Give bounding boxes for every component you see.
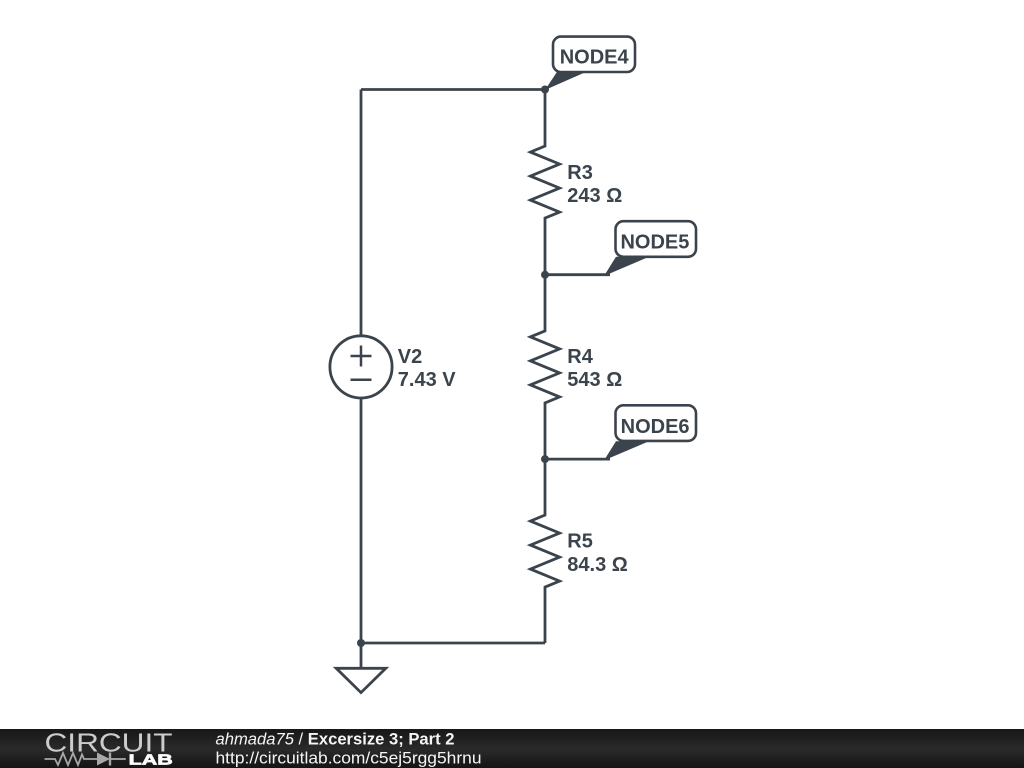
svg-text:http://circuitlab.com/c5ej5rgg: http://circuitlab.com/c5ej5rgg5hrnu (216, 750, 482, 768)
svg-text:R4: R4 (567, 346, 593, 368)
svg-text:V2: V2 (398, 346, 422, 368)
svg-text:NODE4: NODE4 (560, 47, 630, 69)
svg-text:543 Ω: 543 Ω (567, 369, 622, 391)
svg-text:ahmada75 / Excersize 3; Part 2: ahmada75 / Excersize 3; Part 2 (216, 731, 455, 749)
svg-text:R3: R3 (567, 162, 593, 184)
svg-text:LAB: LAB (129, 752, 173, 768)
svg-text:84.3 Ω: 84.3 Ω (567, 554, 628, 576)
svg-text:243 Ω: 243 Ω (567, 185, 622, 207)
svg-text:NODE6: NODE6 (621, 416, 690, 438)
svg-text:NODE5: NODE5 (620, 232, 689, 254)
svg-text:R5: R5 (567, 531, 593, 553)
svg-text:7.43 V: 7.43 V (398, 369, 456, 391)
